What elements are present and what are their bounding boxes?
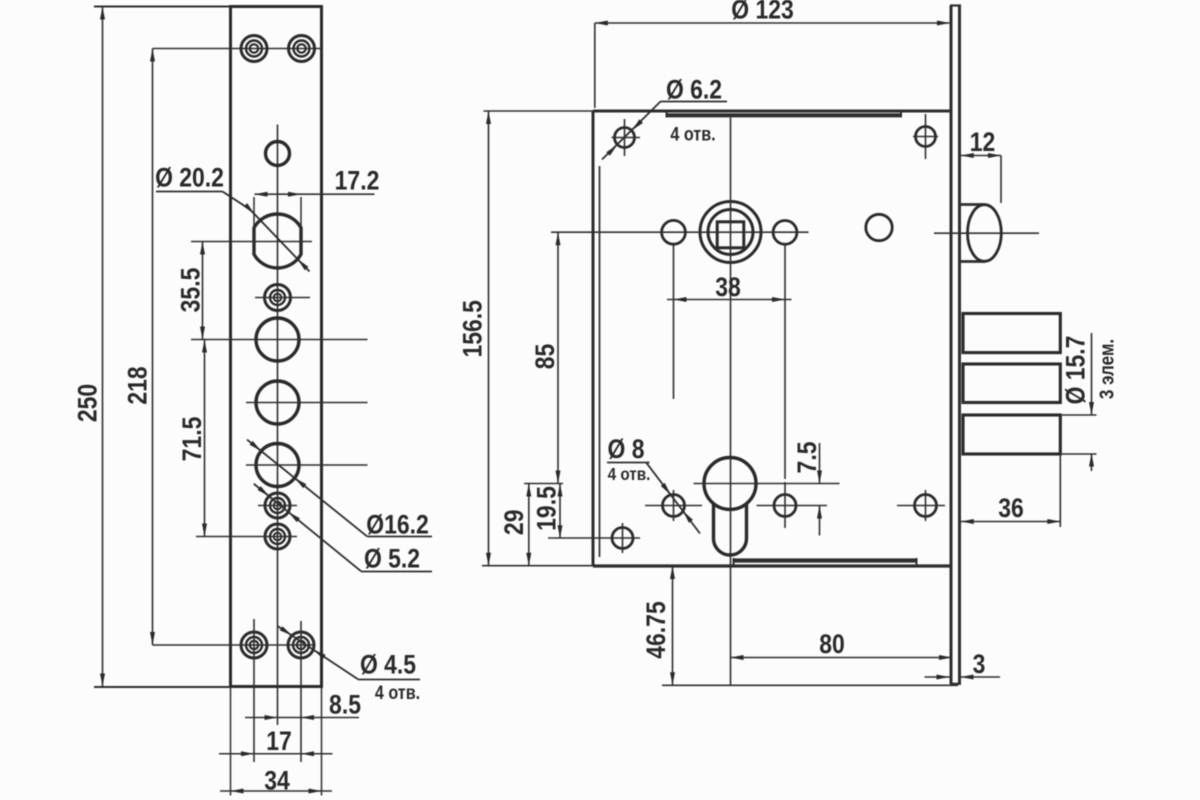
latch bolt ellipse <box>968 205 1002 262</box>
dimension 8.5 text <box>329 690 361 720</box>
screw hole D5.2 upper <box>265 493 290 518</box>
dimension 19.5 line <box>559 484 561 539</box>
svg-text:Ø 20.2: Ø 20.2 <box>155 163 224 193</box>
vertical centerline bottom screw left <box>253 619 255 762</box>
lock body bottom edge <box>593 564 951 567</box>
dimension 250 text <box>73 384 103 422</box>
svg-text:36: 36 <box>998 493 1024 523</box>
screw hole below D20.2 <box>265 285 291 311</box>
centerline lower screw / 71.5 extension <box>196 536 297 538</box>
bottom flange bar <box>734 558 917 562</box>
euro cylinder hole stem <box>714 504 747 555</box>
dimension 218 line <box>152 49 154 646</box>
svg-text:Ø 8: Ø 8 <box>608 434 645 464</box>
square spindle hole <box>717 222 744 248</box>
svg-text:71.5: 71.5 <box>177 417 207 462</box>
dimension 17 line <box>219 753 333 755</box>
svg-text:17: 17 <box>266 726 292 756</box>
latch bolt top edge <box>961 203 985 206</box>
dimension 34 line <box>220 790 332 792</box>
spindle follower inner circle <box>708 210 753 255</box>
svg-text:Ø 4.5: Ø 4.5 <box>360 650 416 680</box>
svg-text:7.5: 7.5 <box>792 441 822 473</box>
right screw hole <box>915 495 937 517</box>
dimension 250 line <box>102 7 104 687</box>
svg-text:85: 85 <box>530 344 560 370</box>
centerline of D20.2 hole / 35.5 extension <box>191 241 312 243</box>
dimension 8.5 line <box>245 717 359 719</box>
small hole above cylinder hole <box>266 142 290 166</box>
extension line right spindle hole <box>784 245 786 479</box>
deadbolt pin 1 <box>963 314 1060 353</box>
latch bolt bottom edge <box>961 260 985 263</box>
label D4.5 with leader <box>360 650 416 680</box>
svg-text:Ø 123: Ø 123 <box>731 0 794 25</box>
dimension 46.75 line <box>672 566 674 685</box>
dimension 7.5 text <box>792 441 822 473</box>
dimension 17.2 text <box>335 166 380 196</box>
label D5.2 with leader <box>364 544 420 574</box>
svg-text:3 элем.: 3 элем. <box>1095 339 1118 399</box>
svg-text:218: 218 <box>123 366 153 404</box>
dimension 156.5 text <box>458 300 488 357</box>
dimension 34 text <box>264 766 290 796</box>
dimension 7.5 lines <box>819 443 821 484</box>
cylinder hole D20.2 with flats <box>254 214 301 268</box>
svg-text:29: 29 <box>499 510 529 536</box>
label 3 elem text <box>1095 339 1118 399</box>
dimension D123 line <box>595 22 950 24</box>
top screw right <box>289 36 315 62</box>
svg-text:34: 34 <box>264 766 290 796</box>
faceplate front view outline (left view) <box>231 7 322 687</box>
dimension 80 line <box>731 657 953 659</box>
svg-text:17.2: 17.2 <box>335 166 380 196</box>
svg-text:Ø 6.2: Ø 6.2 <box>666 75 722 105</box>
dimension 17.2 line <box>255 193 375 195</box>
dimension 38 line <box>667 299 792 301</box>
dimension 85 text <box>530 344 560 370</box>
dimension 17 text <box>266 726 292 756</box>
dimension 46.75 text <box>641 601 671 658</box>
label D6.2 with leader <box>666 75 722 105</box>
center axis line of faceplate <box>277 125 279 726</box>
svg-text:12: 12 <box>970 127 996 157</box>
latch bolt centerline <box>934 232 1039 234</box>
dimension 12 line <box>961 155 1001 157</box>
dimension 71.5 line <box>204 340 206 537</box>
top left screw hole D6.2 <box>615 128 635 148</box>
centerline first D16.2 hole / 35.5-71.5 extension <box>191 339 368 341</box>
top screw left <box>241 36 267 62</box>
euro cylinder hole circle <box>704 458 756 510</box>
dimension 19.5 text <box>532 486 562 531</box>
top flange bar <box>667 113 902 117</box>
hole right of cylinder <box>774 495 796 517</box>
dimension 80 text <box>819 629 845 659</box>
dimension 38 text <box>715 272 741 302</box>
svg-text:46.75: 46.75 <box>641 601 671 658</box>
dimension D15.7 text <box>1061 336 1091 405</box>
centerline third hole <box>246 464 368 466</box>
extra hole right <box>866 214 892 240</box>
spindle follower outer circle <box>700 202 761 263</box>
bottom left screw hole <box>612 528 633 549</box>
centerline through bottom screws / 218 extension <box>153 644 315 646</box>
dimension D15.7 line <box>1091 333 1093 415</box>
label 4 otv under D8 <box>608 464 651 484</box>
centerline through top screws <box>153 48 322 50</box>
vertical centerline bottom screw right <box>300 621 302 762</box>
extension line left spindle hole <box>673 245 675 399</box>
dimension 29 line <box>528 484 530 566</box>
dimension 85 line <box>557 232 559 483</box>
dimension 218 text <box>123 366 153 404</box>
screw hole D5.2 lower <box>265 524 290 549</box>
label 4 otv under D6.2 <box>670 123 715 145</box>
screw hole D8 left <box>663 495 685 517</box>
svg-text:250: 250 <box>73 384 103 422</box>
dimension 12 text <box>970 127 996 157</box>
label 4 otv under D4.5 <box>375 682 420 704</box>
inner left edge line <box>599 166 601 557</box>
dimension 36 text <box>998 493 1024 523</box>
centerline through cylinder hole <box>694 483 840 485</box>
label D16.2 with leader <box>366 510 428 540</box>
dimension D123 text <box>731 0 794 25</box>
faceplate side view left line <box>950 6 953 685</box>
label D8 with leader <box>608 434 645 464</box>
handle screw hole left of spindle <box>662 220 686 244</box>
svg-text:4 отв.: 4 отв. <box>670 123 715 145</box>
top right screw hole <box>916 127 936 147</box>
hole D16.2 third <box>256 444 299 487</box>
centerline second hole <box>246 402 368 404</box>
deadbolt pin 2 <box>963 364 1060 403</box>
dimension 3 text <box>973 649 986 679</box>
svg-text:35.5: 35.5 <box>176 268 206 313</box>
dimension 29 text <box>499 510 529 536</box>
dimension 36 line <box>961 521 1061 523</box>
bottom screw right <box>288 632 314 658</box>
dimension 35.5 line <box>202 242 204 340</box>
svg-text:156.5: 156.5 <box>458 300 488 357</box>
dimension 71.5 text <box>177 417 207 462</box>
svg-text:Ø 5.2: Ø 5.2 <box>364 544 420 574</box>
svg-text:Ø 15.7: Ø 15.7 <box>1061 336 1091 405</box>
svg-text:8.5: 8.5 <box>329 690 361 720</box>
deadbolt pin 3 <box>963 415 1060 454</box>
dimension 35.5 text <box>176 268 206 313</box>
dimension 3 lines <box>925 676 950 678</box>
horizontal centerline through spindle <box>551 231 809 233</box>
svg-text:4 отв.: 4 отв. <box>375 682 420 704</box>
lock body left edge <box>592 111 595 566</box>
handle screw hole right of spindle <box>773 221 797 245</box>
dimension 156.5 line <box>488 111 490 566</box>
lock body top edge <box>593 110 951 113</box>
svg-text:3: 3 <box>973 649 986 679</box>
faceplate side view right line <box>958 6 961 685</box>
bottom screw left <box>241 632 267 658</box>
svg-text:19.5: 19.5 <box>532 486 562 531</box>
vertical centerline through spindle and cylinder <box>730 118 732 686</box>
hole D16.2 second <box>256 381 299 424</box>
svg-text:Ø16.2: Ø16.2 <box>366 510 428 540</box>
hole D16.2 first <box>256 318 299 361</box>
svg-text:4 отв.: 4 отв. <box>608 464 651 484</box>
svg-text:38: 38 <box>715 272 741 302</box>
svg-text:80: 80 <box>819 629 845 659</box>
label D20.2 with leader <box>155 163 224 193</box>
